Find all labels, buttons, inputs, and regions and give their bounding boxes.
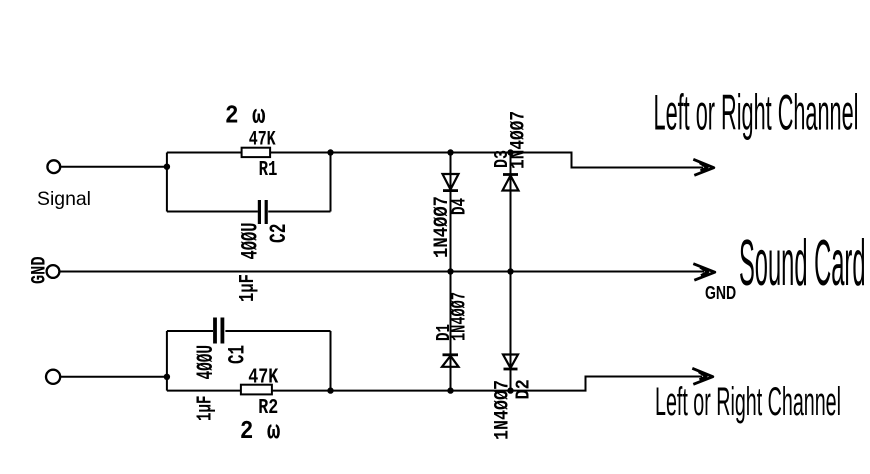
wire bottom input	[61, 376, 167, 378]
wire top output	[331, 153, 704, 168]
arrow top channel	[693, 159, 714, 175]
svg-text:47K: 47K	[249, 129, 276, 152]
junction gnd D4	[447, 268, 453, 274]
capacitor C2 plate right	[265, 200, 268, 224]
wire top loop lower left	[167, 211, 258, 213]
svg-text:Sound Card: Sound Card	[739, 226, 866, 299]
junction node D3 top	[507, 149, 513, 155]
wire bottom output	[331, 377, 703, 391]
junction node D2 bottom	[507, 387, 513, 393]
svg-text:1µF: 1µF	[195, 396, 218, 422]
svg-text:C2: C2	[266, 224, 292, 244]
junction top loop right	[327, 149, 333, 155]
terminal GND left	[47, 265, 60, 278]
junction top input	[164, 164, 170, 170]
svg-text:2 ω: 2 ω	[240, 416, 281, 446]
svg-text:D4: D4	[449, 198, 471, 215]
svg-text:1N4ØØ7: 1N4ØØ7	[508, 111, 531, 169]
junction bottom loop right	[327, 387, 333, 393]
wire top loop right vertical	[330, 153, 332, 212]
svg-text:4ØØU: 4ØØU	[193, 345, 219, 380]
diode D4 symbol	[443, 174, 459, 191]
arrow sound card gnd	[693, 264, 715, 281]
svg-text:4ØØU: 4ØØU	[238, 223, 264, 260]
wire bottom loop upper right	[225, 330, 330, 332]
junction node D1 bottom	[447, 387, 453, 393]
wire top loop upper	[167, 152, 331, 154]
diode D3 symbol	[503, 175, 519, 191]
wire bottom loop upper left	[167, 330, 213, 332]
wire diode column 2	[510, 153, 512, 391]
junction gnd D3	[507, 268, 513, 274]
arrow bottom channel	[692, 368, 713, 384]
capacitor C1 plate right	[220, 318, 224, 344]
svg-text:GND: GND	[28, 257, 51, 285]
wire top loop lower right	[268, 211, 330, 213]
junction bottom input	[164, 374, 170, 380]
capacitor C1 plate left	[213, 318, 217, 344]
svg-text:1N4ØØ7: 1N4ØØ7	[449, 292, 472, 341]
diode D2 symbol	[503, 355, 518, 370]
svg-text:R1: R1	[259, 159, 278, 182]
terminal J2 signal bottom	[46, 370, 60, 384]
wire top input	[61, 166, 167, 168]
svg-text:1µF: 1µF	[237, 274, 260, 302]
capacitor C2 plate left	[258, 200, 261, 224]
svg-text:2 ω: 2 ω	[225, 102, 266, 131]
diode D1 symbol	[442, 355, 459, 367]
terminal J1 signal top	[47, 160, 60, 173]
resistor R2 body	[241, 385, 272, 395]
svg-text:Signal: Signal	[37, 188, 91, 210]
svg-text:C1: C1	[225, 345, 251, 364]
svg-text:Left or Right Channel: Left or Right Channel	[655, 380, 841, 424]
resistor R1 body	[242, 148, 271, 157]
wire bottom loop left vertical	[166, 331, 168, 391]
wire ground rail	[60, 271, 704, 273]
svg-text:D2: D2	[513, 379, 535, 399]
wire bottom loop right vertical	[330, 331, 332, 391]
svg-text:Left or Right Channel: Left or Right Channel	[654, 84, 859, 140]
svg-text:47K: 47K	[248, 367, 278, 390]
svg-text:GND: GND	[705, 283, 736, 303]
wire top loop left vertical	[166, 153, 168, 212]
svg-text:1N4ØØ7: 1N4ØØ7	[492, 380, 515, 440]
wire bottom loop lower	[167, 390, 331, 392]
wire diode column 1	[450, 153, 452, 391]
junction node D4 top	[447, 149, 453, 155]
